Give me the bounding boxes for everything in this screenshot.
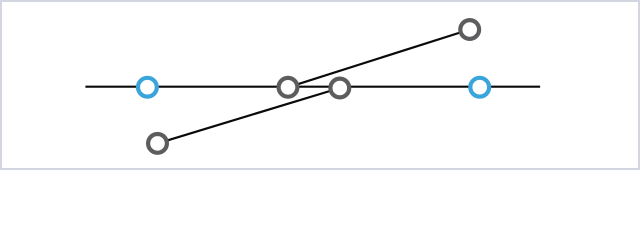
frame border bbox=[1, 1, 639, 169]
node blue right bbox=[470, 78, 489, 97]
node gray mid-left bbox=[279, 78, 298, 97]
node gray mid-right bbox=[330, 79, 349, 98]
wire diagonal branch upper (mid-left node to top-right node) bbox=[288, 30, 470, 88]
wire diagonal branch lower (bottom-left node to mid-right node) bbox=[158, 88, 340, 143]
wire main horizontal track line bbox=[85, 86, 540, 88]
node blue left bbox=[138, 78, 157, 97]
node gray bottom-left bbox=[148, 134, 167, 153]
node gray top-right bbox=[460, 20, 479, 39]
